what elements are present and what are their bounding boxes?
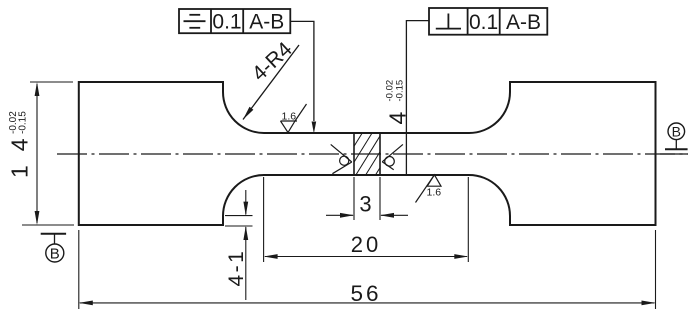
svg-text:A-B: A-B (506, 11, 541, 34)
datum B left (41, 233, 66, 235)
svg-text:0.1: 0.1 (469, 11, 498, 34)
svg-text:B: B (50, 245, 60, 262)
svg-text:56: 56 (350, 281, 381, 306)
svg-text:4-1: 4-1 (225, 249, 248, 287)
FCF perpendicularity texts (469, 11, 541, 34)
leader from perpendicularity FCF / dim line of 4 (406, 21, 429, 175)
dimension 3 (326, 177, 408, 220)
svg-text:0.1: 0.1 (212, 11, 241, 34)
dimension 56 (79, 230, 656, 309)
svg-text:1.6: 1.6 (282, 111, 297, 123)
svg-text:-0.15: -0.15 (18, 111, 29, 134)
svg-text:20: 20 (351, 232, 381, 257)
perpendicularity symbol (436, 14, 461, 29)
svg-text:4-R4: 4-R4 (248, 38, 297, 86)
surface finish 1.6 top (281, 104, 307, 133)
FCF perpendicularity frame (429, 8, 547, 35)
dimension 4 with tolerance (rotated) (385, 80, 411, 125)
svg-text:3: 3 (359, 192, 371, 217)
part outline (79, 82, 656, 225)
gauge mark left (331, 144, 352, 173)
leader from symmetry FCF (290, 21, 314, 121)
datum B right (665, 148, 688, 150)
dimension 20 (264, 177, 469, 262)
centerline extension right (660, 153, 688, 155)
centerline axis B (57, 153, 688, 155)
svg-text:-0.15: -0.15 (395, 80, 406, 102)
svg-text:B: B (672, 123, 681, 139)
gauge mark right (382, 144, 403, 169)
svg-text:1.6: 1.6 (427, 187, 442, 199)
svg-text:A-B: A-B (249, 11, 284, 34)
dimension 4-1 (225, 190, 253, 300)
hatched gauge section (354, 133, 380, 175)
surface finish 1.6 bottom (416, 175, 442, 203)
FCF symmetry frame (179, 9, 290, 33)
svg-text:4: 4 (385, 112, 411, 125)
FCF symmetry texts (212, 11, 284, 34)
symmetry symbol (184, 15, 206, 28)
label 4-R4 with leader (243, 45, 299, 120)
dimension 14 with tolerance (22, 82, 74, 225)
